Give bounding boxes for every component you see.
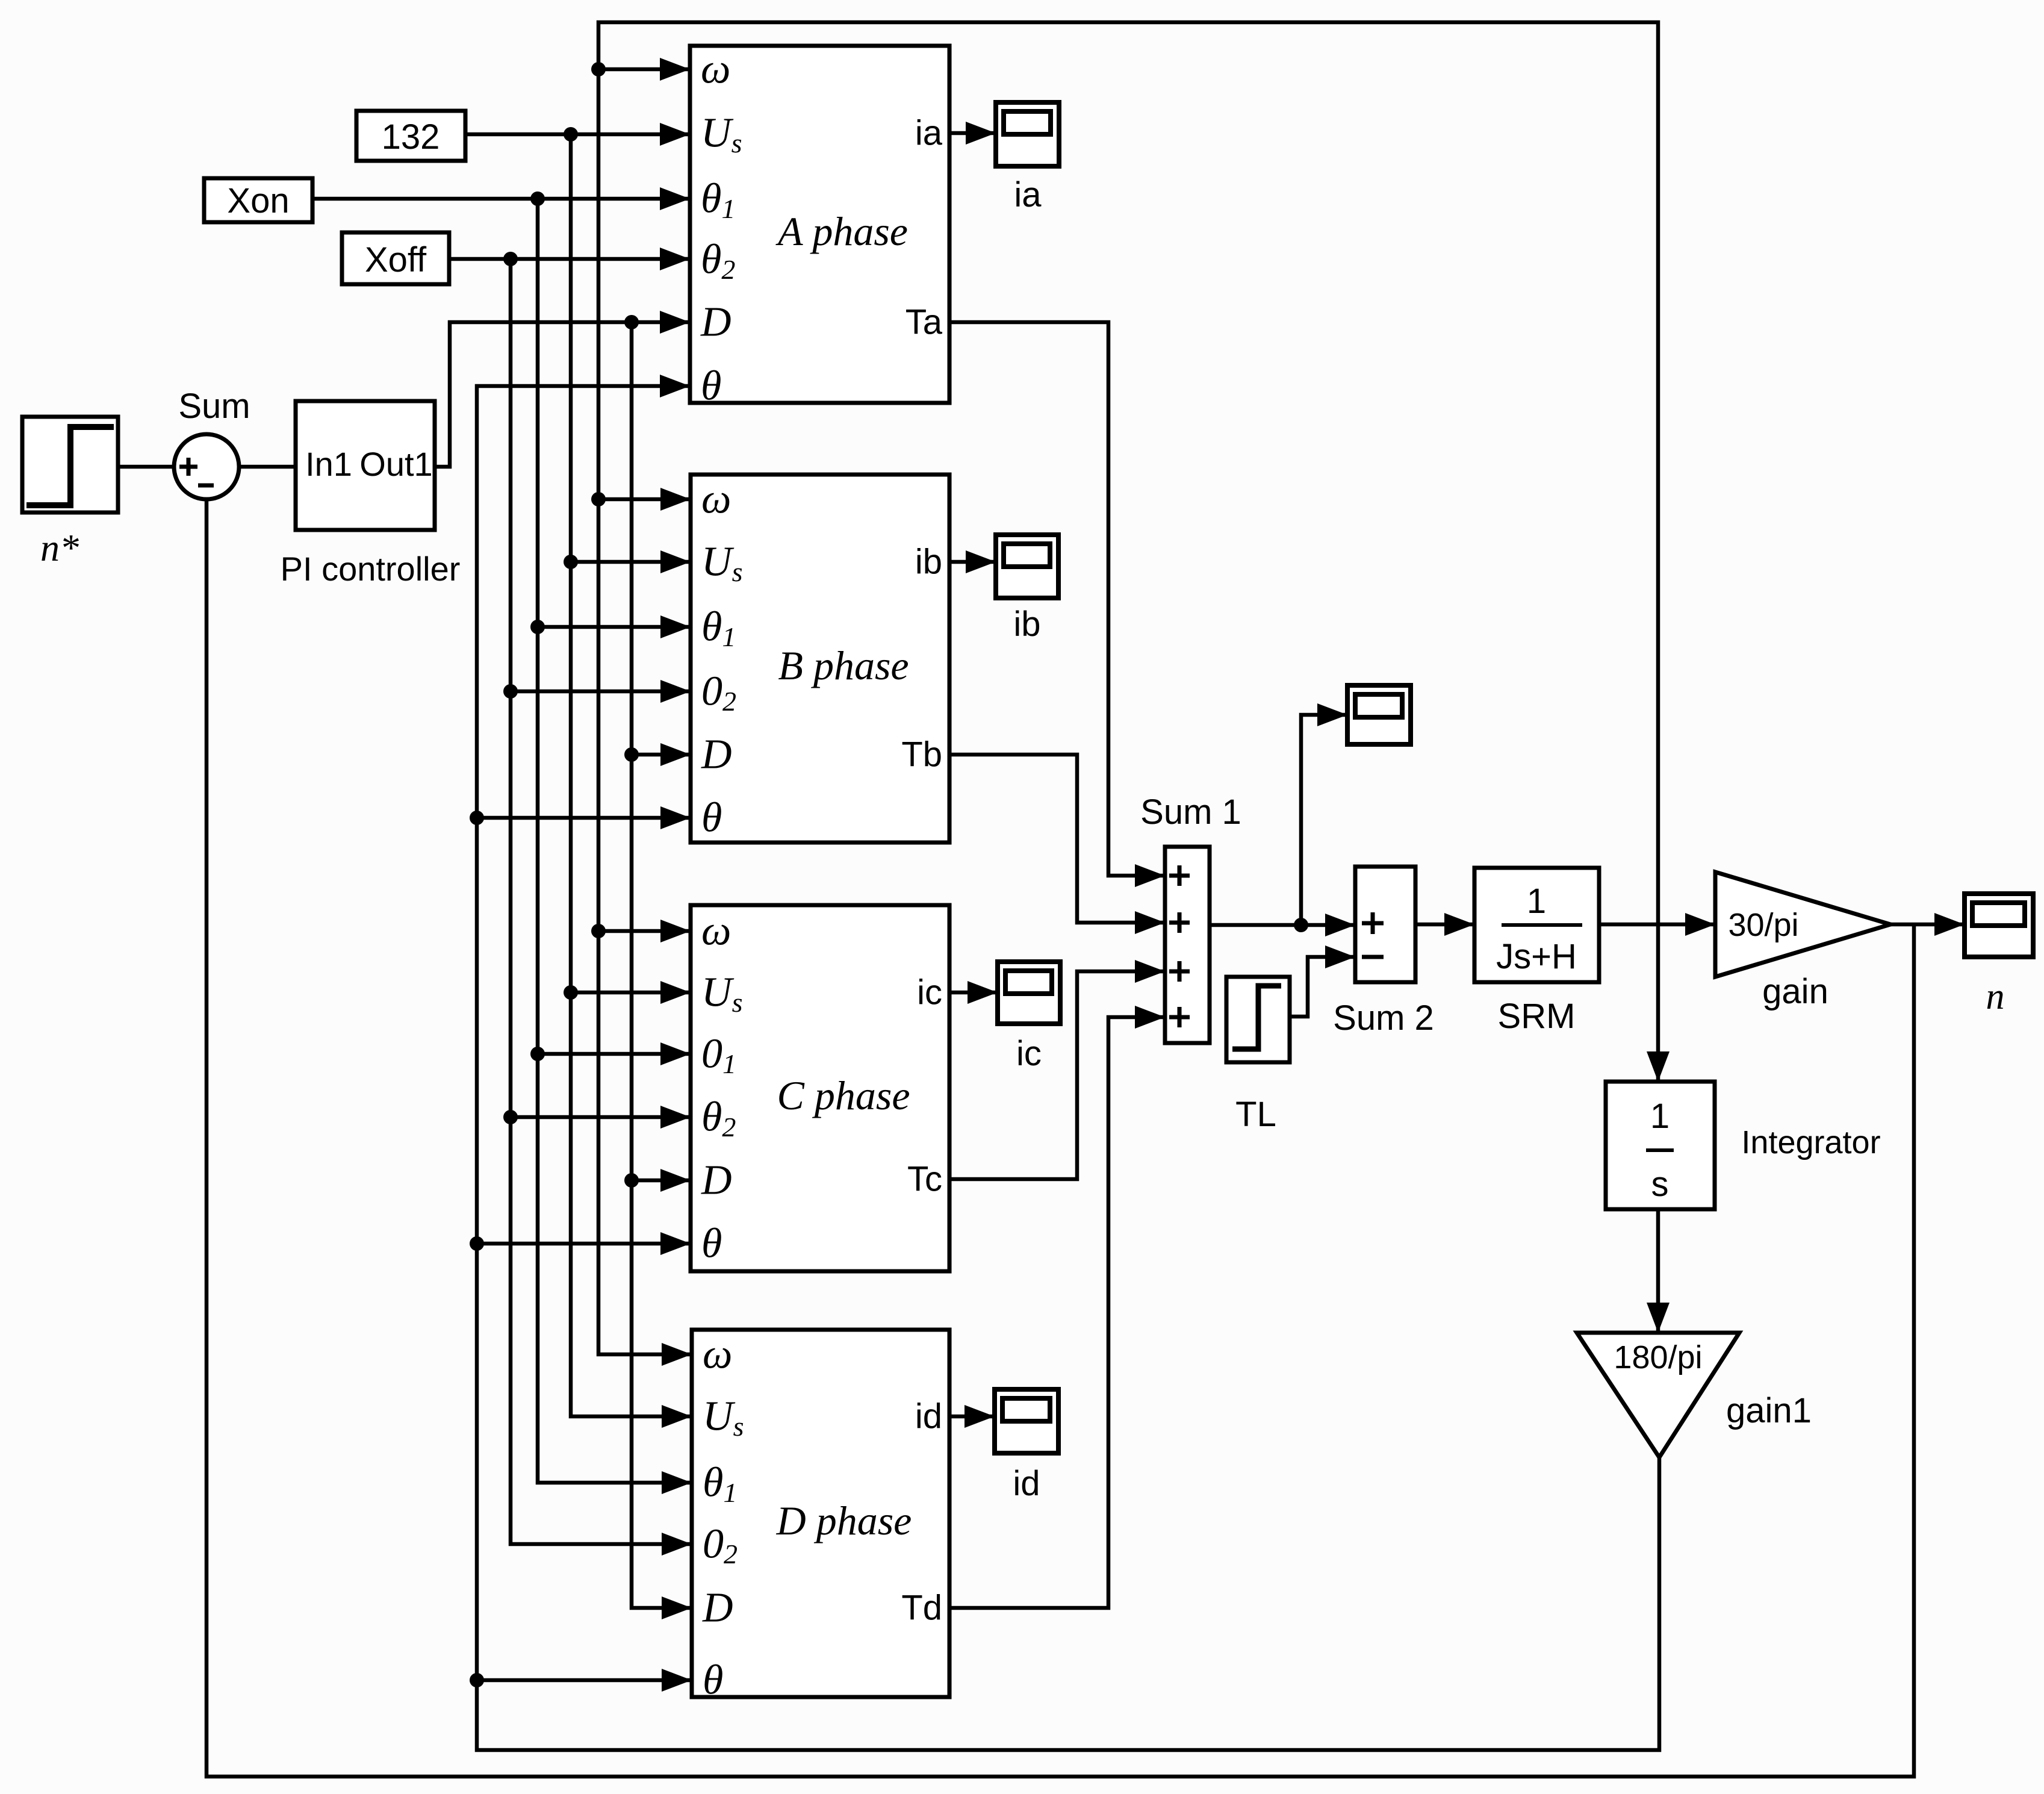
svg-text:θ: θ xyxy=(703,1657,723,1704)
wire Xon to theta1 input row A xyxy=(312,197,690,201)
wire SRM output to gain xyxy=(1599,923,1715,927)
wire Tb to Sum1 input 2 xyxy=(949,755,1165,923)
step source n* xyxy=(22,417,118,569)
wire theta input row D xyxy=(477,1678,692,1683)
wire theta2 bus: from Xoff row down to D theta2 input xyxy=(511,259,692,1544)
svg-text:n: n xyxy=(1986,976,2005,1017)
svg-text:n*: n* xyxy=(40,526,79,569)
wire ic output to scope xyxy=(949,991,998,995)
scope id xyxy=(995,1389,1058,1503)
junction dot torque scope branch xyxy=(1294,918,1308,932)
wire theta1 bus: from Xon row down to D theta1 input xyxy=(538,199,692,1483)
wire ib output to scope xyxy=(949,560,996,564)
subsystem C phase xyxy=(691,905,949,1271)
svg-text:30/pi: 30/pi xyxy=(1728,907,1798,943)
svg-text:Integrator: Integrator xyxy=(1741,1124,1880,1160)
sum block Sum 1 xyxy=(1140,793,1241,1043)
constant block Xoff xyxy=(342,232,449,284)
wire Td to Sum1 input 4 xyxy=(949,1017,1165,1608)
wire Ta to Sum1 input 1 xyxy=(949,322,1165,876)
junction dots theta bus xyxy=(470,811,484,825)
svg-text:C phase: C phase xyxy=(777,1073,910,1118)
subsystem A phase xyxy=(690,46,949,410)
svg-text:θ: θ xyxy=(701,363,721,410)
svg-text:θ: θ xyxy=(701,1221,722,1267)
svg-text:D: D xyxy=(701,732,732,778)
wire Xoff to theta2 input row A xyxy=(449,257,690,261)
wire theta1 input row C xyxy=(538,1052,691,1056)
junction dots D bus xyxy=(624,315,639,329)
svg-text:B phase: B phase xyxy=(778,643,909,688)
svg-text:Js+H: Js+H xyxy=(1496,937,1577,976)
svg-text:ib: ib xyxy=(1013,605,1040,644)
wire Us input row C xyxy=(571,991,691,995)
wire D input row B xyxy=(632,753,691,757)
wire Tc to Sum1 input 3 xyxy=(949,971,1165,1179)
scope ic xyxy=(998,962,1060,1073)
svg-text:Out1: Out1 xyxy=(359,445,432,483)
svg-text:ω: ω xyxy=(701,476,731,523)
scope ia xyxy=(996,102,1059,214)
wire D bus: from PI output row down to D phase D input xyxy=(632,322,692,1608)
step source TL xyxy=(1226,977,1290,1134)
svg-text:Tb: Tb xyxy=(901,735,942,774)
wire theta2 input row B xyxy=(511,690,691,694)
svg-text:Xon: Xon xyxy=(227,181,289,220)
wire Sum2 output to SRM xyxy=(1415,923,1474,927)
junction dots omega bus xyxy=(591,62,606,76)
svg-text:1: 1 xyxy=(1527,882,1546,921)
svg-text:s: s xyxy=(1651,1165,1669,1204)
wire PI Out1 riser to D input row A xyxy=(435,322,690,467)
wire omega input row B xyxy=(598,497,691,502)
scope torque (unnamed) xyxy=(1347,685,1411,744)
constant block 132 xyxy=(356,111,465,161)
wire TL to Sum2 minus xyxy=(1288,957,1355,1017)
junction dots theta2 bus xyxy=(503,252,518,266)
wire Sum1 output to Sum2 plus xyxy=(1210,923,1355,927)
wire theta1 input row B xyxy=(538,625,691,629)
wire ia output to scope xyxy=(949,131,996,135)
scope ib xyxy=(996,535,1058,644)
subsystem B phase xyxy=(691,475,949,842)
svg-text:ω: ω xyxy=(703,1331,732,1378)
wire step to Sum xyxy=(117,465,175,469)
svg-text:D: D xyxy=(700,299,732,346)
svg-text:id: id xyxy=(915,1397,942,1436)
svg-text:Tc: Tc xyxy=(907,1160,942,1199)
svg-text:ω: ω xyxy=(701,46,730,93)
svg-text:gain1: gain1 xyxy=(1726,1391,1812,1430)
svg-text:ia: ia xyxy=(1014,175,1042,214)
block PI controller xyxy=(281,401,461,588)
svg-text:Sum 2: Sum 2 xyxy=(1333,998,1434,1038)
svg-text:TL: TL xyxy=(1235,1095,1276,1134)
wire Us input row B xyxy=(571,560,691,564)
junction dots theta1 bus xyxy=(530,192,545,206)
wire gain output to scope n xyxy=(1890,923,1965,927)
svg-text:θ: θ xyxy=(701,795,722,841)
wire omega input row A xyxy=(598,67,690,72)
svg-text:In1: In1 xyxy=(305,445,352,483)
wire integrator to gain1 xyxy=(1656,1209,1660,1333)
wire theta input row B xyxy=(477,816,691,820)
svg-text:Ta: Ta xyxy=(906,303,943,342)
sum block Sum 2 xyxy=(1333,867,1434,1038)
wire D input row C xyxy=(632,1179,691,1183)
svg-text:180/pi: 180/pi xyxy=(1614,1339,1702,1375)
svg-text:ic: ic xyxy=(917,973,942,1012)
svg-text:D: D xyxy=(701,1157,732,1204)
svg-text:Xoff: Xoff xyxy=(365,240,427,279)
svg-text:ia: ia xyxy=(915,114,943,153)
svg-text:D phase: D phase xyxy=(776,1498,912,1543)
svg-text:Sum 1: Sum 1 xyxy=(1140,793,1241,832)
svg-text:ic: ic xyxy=(1016,1034,1042,1073)
integrator 1/s xyxy=(1606,1082,1881,1209)
summing junction Sum xyxy=(174,387,250,499)
svg-text:gain: gain xyxy=(1762,972,1828,1011)
constant block Xon xyxy=(204,178,312,222)
wire omega feedback loop: D omega stub, bus up, top line, riser down to integrator xyxy=(598,22,1658,1354)
gain 30/pi xyxy=(1715,872,1890,1011)
svg-text:ω: ω xyxy=(701,908,731,955)
transfer function SRM 1/(Js+H) xyxy=(1474,868,1599,1036)
wire Sum to PI controller xyxy=(239,465,296,469)
wire theta2 input row C xyxy=(511,1115,691,1120)
wire id output to scope xyxy=(949,1415,995,1419)
svg-text:id: id xyxy=(1013,1464,1040,1503)
wire 132 to Us input row A xyxy=(465,132,690,137)
svg-text:132: 132 xyxy=(382,117,440,157)
wire theta input row C xyxy=(477,1242,691,1246)
wire theta feedback: gain1 apex down, across bottom, up theta bus, into A theta xyxy=(477,386,1659,1750)
svg-text:Sum: Sum xyxy=(178,387,250,426)
svg-text:Td: Td xyxy=(901,1589,942,1628)
svg-text:D: D xyxy=(702,1585,733,1631)
junction dots Us bus xyxy=(564,127,578,142)
wire omega input row C xyxy=(598,929,691,933)
wire n feedback loop xyxy=(207,499,1914,1777)
svg-text:ib: ib xyxy=(915,543,942,582)
svg-text:PI controller: PI controller xyxy=(281,550,461,588)
wire branch to torque scope xyxy=(1301,715,1347,925)
svg-text:SRM: SRM xyxy=(1498,997,1576,1036)
gain1 180/pi xyxy=(1577,1333,1812,1457)
svg-text:1: 1 xyxy=(1650,1097,1670,1136)
wire Us bus: from 132 row down to D Us input xyxy=(571,134,692,1416)
subsystem D phase xyxy=(692,1330,949,1704)
scope n xyxy=(1965,894,2033,1017)
svg-text:A phase: A phase xyxy=(775,208,908,254)
